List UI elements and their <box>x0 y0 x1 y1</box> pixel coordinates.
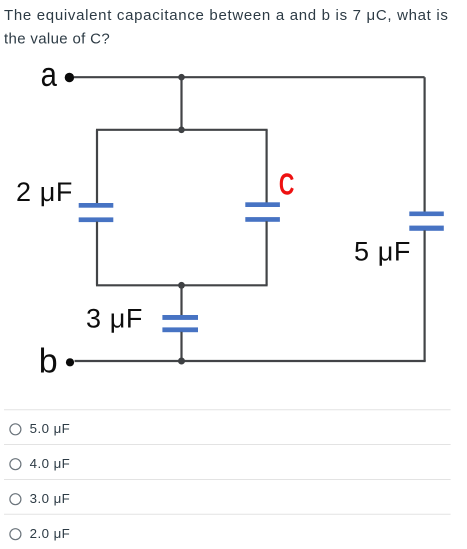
wire inner box left edge lower <box>96 222 98 286</box>
svg-text:b: b <box>39 343 58 381</box>
junction inner box top <box>178 127 185 134</box>
wire inner box bottom edge <box>96 284 268 286</box>
svg-text:2 μF: 2 μF <box>16 177 73 207</box>
svg-text:3 μF: 3 μF <box>86 303 143 333</box>
wire right branch lower <box>424 230 426 361</box>
capacitor C3 3uF plates <box>162 315 198 332</box>
wire top (a to top-right corner) <box>74 76 425 78</box>
svg-text:a: a <box>41 55 58 94</box>
capacitor C plates <box>245 202 280 222</box>
capacitor C1 2uF plates <box>79 203 114 222</box>
wire inner box left edge upper <box>96 130 98 204</box>
wire bottom (b to bottom-right corner) <box>75 360 426 362</box>
divider 1 <box>4 409 451 411</box>
capacitor C4 5uF plates <box>409 212 444 231</box>
wire inner box right edge lower <box>266 221 268 285</box>
wire right branch upper <box>424 77 426 212</box>
svg-text:5 μF: 5 μF <box>354 237 411 267</box>
svg-text:the value of C?: the value of C? <box>4 30 110 47</box>
junction top middle <box>178 74 185 81</box>
wire middle stub (top wire to inner box) <box>180 77 182 130</box>
node b terminal dot <box>66 358 74 366</box>
answer radio 4.0uF <box>10 459 21 470</box>
wire 3uF branch lower <box>180 332 182 361</box>
junction inner box bottom <box>178 282 185 289</box>
answer radio 3.0uF <box>10 494 21 505</box>
wire inner box right edge upper <box>266 130 268 203</box>
divider 3 <box>4 479 451 481</box>
answer radio 5.0uF <box>10 424 21 435</box>
wire inner box top edge <box>96 129 268 131</box>
svg-text:3.0 μF: 3.0 μF <box>30 491 71 506</box>
svg-text:5.0 μF: 5.0 μF <box>30 421 71 436</box>
wire 3uF branch upper <box>180 285 182 315</box>
svg-text:4.0 μF: 4.0 μF <box>30 456 71 471</box>
answer radio 2.0uF <box>10 529 21 540</box>
svg-text:2.0 μF: 2.0 μF <box>30 526 71 541</box>
divider 4 <box>4 513 451 515</box>
node a terminal dot <box>65 73 74 82</box>
divider 2 <box>4 444 451 446</box>
svg-text:C: C <box>279 166 294 201</box>
svg-text:The equivalent capacitance bet: The equivalent capacitance between a and… <box>4 7 449 24</box>
junction bottom middle <box>178 358 185 365</box>
